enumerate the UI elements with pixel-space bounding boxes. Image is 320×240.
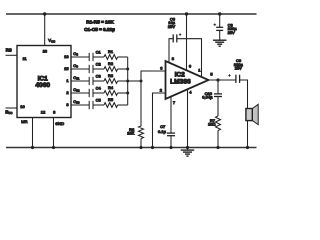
polarity + of C9 xyxy=(228,74,231,77)
svg-text:6: 6 xyxy=(189,64,192,69)
svg-text:IC2: IC2 xyxy=(175,71,186,78)
wire C7 to ground xyxy=(170,136,172,148)
wire C9 to speaker xyxy=(240,80,248,108)
node R7 ground junction xyxy=(216,146,219,149)
svg-text:10Ω: 10Ω xyxy=(208,121,215,126)
speaker LS1 body xyxy=(246,109,252,121)
svg-text:C5: C5 xyxy=(96,98,102,103)
ground symbol main xyxy=(187,148,189,151)
svg-text:8: 8 xyxy=(172,56,175,61)
resistor R5 xyxy=(104,103,118,108)
svg-text:25V: 25V xyxy=(235,65,242,70)
svg-text:C3: C3 xyxy=(96,74,102,79)
polarity + of C8 xyxy=(214,23,217,26)
svg-text:1: 1 xyxy=(66,78,69,83)
speaker LS1 cone xyxy=(253,104,259,124)
svg-text:O8: O8 xyxy=(73,51,78,57)
node pin6 rail junction xyxy=(185,12,188,15)
node C7 ground junction xyxy=(169,146,172,149)
node R6 ground junction xyxy=(139,146,142,149)
wire speaker to ground xyxy=(247,121,249,148)
wire rail to IC2 pin 6 xyxy=(186,14,188,70)
wire IC1 pin 13 to C1 xyxy=(71,56,89,58)
svg-text:RTC: RTC xyxy=(5,109,12,115)
wire C6 to IC2 pin 1 xyxy=(177,39,201,76)
wire R6 to ground xyxy=(140,139,142,148)
wire C2 to R2 xyxy=(93,68,104,70)
capacitor C10 xyxy=(217,80,219,94)
capacitor C3 xyxy=(88,77,90,85)
wire R1 to summing bus xyxy=(118,56,128,58)
wire bus tap to node xyxy=(128,80,141,82)
node bus junction y93 xyxy=(126,92,129,95)
wire C8 to ground symbol xyxy=(219,30,221,39)
node summing junction xyxy=(140,80,143,83)
svg-text:3: 3 xyxy=(66,102,69,107)
svg-text:R3: R3 xyxy=(108,73,114,78)
capacitor C6 xyxy=(172,34,174,42)
svg-text:MR: MR xyxy=(21,119,27,124)
svg-text:LM386: LM386 xyxy=(170,79,191,86)
wire IC1 pin 15 to C2 xyxy=(71,68,89,70)
wire C10 to R7 xyxy=(217,97,219,117)
node pin4 ground junction xyxy=(186,146,189,149)
capacitor C4 xyxy=(88,89,90,97)
node Vcc junction on top rail xyxy=(43,12,46,15)
wire C5 to R5 xyxy=(93,104,104,106)
svg-text:25V: 25V xyxy=(168,24,175,29)
wire IC2 output pin 5 xyxy=(209,79,237,81)
svg-text:12: 12 xyxy=(41,110,46,115)
svg-text:RS: RS xyxy=(6,48,12,53)
svg-text:5: 5 xyxy=(210,71,213,76)
svg-text:R1-R5 = 10K: R1-R5 = 10K xyxy=(86,20,114,25)
svg-text:4060: 4060 xyxy=(35,82,50,89)
svg-text:1: 1 xyxy=(198,67,201,72)
ground symbol C8 xyxy=(219,39,221,42)
svg-text:13: 13 xyxy=(64,54,69,59)
wire summing node riser xyxy=(141,71,166,126)
svg-text:10K: 10K xyxy=(127,131,134,136)
capacitor C8 xyxy=(216,26,223,28)
node output junction xyxy=(216,78,219,81)
svg-text:0,04µ: 0,04µ xyxy=(202,95,213,100)
svg-text:25V: 25V xyxy=(228,30,235,35)
capacitor C2 xyxy=(88,65,90,73)
svg-text:3: 3 xyxy=(160,65,163,70)
wire summing bus vertical xyxy=(127,57,129,105)
wire ground bottom bus xyxy=(6,147,257,149)
wire rail to C8 xyxy=(219,14,221,27)
node C8 rail junction xyxy=(218,12,221,15)
resistor R4 xyxy=(104,91,118,96)
capacitor C1 xyxy=(88,53,90,61)
IC U1: IC1 4060 counter/oscillator xyxy=(17,46,71,118)
wire RS input xyxy=(6,54,18,56)
svg-text:R4: R4 xyxy=(108,85,114,90)
op-amp U2: IC2 LM386 amplifier triangle xyxy=(166,61,209,99)
svg-text:C2: C2 xyxy=(96,62,102,67)
wire R4 to summing bus xyxy=(118,92,128,94)
svg-text:C1: C1 xyxy=(96,50,102,55)
node pin2 ground junction xyxy=(151,146,154,149)
wire IC2 pin 2 to ground xyxy=(153,93,166,148)
capacitor C5 xyxy=(88,101,90,109)
svg-text:C1-C5 = 0.22µ: C1-C5 = 0.22µ xyxy=(84,27,115,32)
svg-text:10: 10 xyxy=(20,104,25,109)
resistor R1 xyxy=(104,55,118,60)
resistor R3 xyxy=(104,79,118,84)
wire IC2 pin 8 riser xyxy=(169,39,173,64)
node speaker ground junction xyxy=(246,146,249,149)
wire RTC input xyxy=(6,107,18,109)
svg-text:O12: O12 xyxy=(73,87,80,93)
polarity + of C6 xyxy=(179,33,182,36)
resistor R7 xyxy=(216,116,221,131)
node bus junction y69 xyxy=(126,68,129,71)
wire R7 to ground xyxy=(217,131,219,148)
svg-text:VCC: VCC xyxy=(48,38,55,44)
svg-text:11: 11 xyxy=(23,56,28,61)
svg-text:R5: R5 xyxy=(108,97,114,102)
wire IC1 pin 8 to ground xyxy=(53,118,55,148)
svg-text:O11: O11 xyxy=(73,75,80,81)
svg-text:2: 2 xyxy=(66,90,69,95)
wire IC1 pin 12 to ground xyxy=(32,118,34,148)
wire Vcc top rail xyxy=(6,13,257,15)
resistor R2 xyxy=(104,67,118,72)
capacitor C7 xyxy=(167,132,175,134)
svg-text:2: 2 xyxy=(160,88,163,93)
svg-text:0.1µ: 0.1µ xyxy=(158,129,167,134)
svg-text:15: 15 xyxy=(64,66,69,71)
wire R3 to summing bus xyxy=(118,80,128,82)
wire C3 to R3 xyxy=(93,80,104,82)
wire Vcc to IC1 pin 16 xyxy=(44,14,46,46)
wire IC2 pin 4 to ground xyxy=(187,90,189,148)
node pin8 ground junction xyxy=(52,146,55,149)
wire IC1 pin 3 to C5 xyxy=(71,104,89,106)
svg-text:4: 4 xyxy=(189,90,192,95)
wire R2 to summing bus xyxy=(118,68,128,70)
wire IC1 pin 1 to C3 xyxy=(71,80,89,82)
wire R5 to summing bus xyxy=(118,104,128,106)
wire C1 to R1 xyxy=(93,56,104,58)
resistor R6 xyxy=(139,126,144,138)
wire IC1 pin 2 to C4 xyxy=(71,92,89,94)
svg-text:7: 7 xyxy=(173,100,176,105)
capacitor C9 xyxy=(235,75,237,83)
svg-text:C4: C4 xyxy=(96,86,102,91)
svg-text:O9: O9 xyxy=(73,63,78,69)
svg-text:8: 8 xyxy=(53,110,56,115)
svg-text:16: 16 xyxy=(43,48,48,53)
svg-text:GND: GND xyxy=(55,121,64,126)
svg-text:O13: O13 xyxy=(73,99,80,105)
wire IC2 pin 7 to C7 xyxy=(170,97,172,134)
svg-text:R1: R1 xyxy=(108,49,114,54)
node pin12 ground junction xyxy=(31,146,34,149)
node bus junction y81 xyxy=(126,80,129,83)
svg-text:R2: R2 xyxy=(108,61,114,66)
wire C4 to R4 xyxy=(93,92,104,94)
